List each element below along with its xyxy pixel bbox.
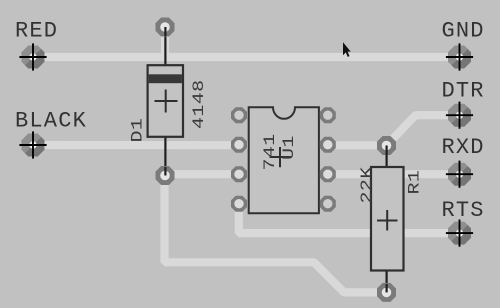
svg-text:GND: GND [442,18,485,43]
svg-text:4148: 4148 [191,79,208,129]
pad RXD [446,161,473,188]
svg-text:RTS: RTS [442,198,485,223]
wire: via V2 to via V4 trace [165,176,387,293]
pad GND [446,43,473,70]
resistor R1 [371,167,404,271]
via V2 (below diode) [156,166,175,185]
svg-text:741: 741 [262,133,279,170]
svg-text:BLACK: BLACK [15,108,87,133]
wire: BLACK to via V3 trace [33,141,387,150]
mouse cursor [343,42,351,57]
diode D1 [148,65,183,137]
via V3 (above resistor) [377,136,396,155]
pad DTR [446,102,473,129]
wire: RED to GND trace [33,53,460,61]
svg-text:RED: RED [15,18,58,43]
svg-text:DTR: DTR [442,78,485,103]
svg-text:22K: 22K [359,166,376,203]
pad U1 pin 7 [320,137,336,153]
pad U1 pin 1 [231,107,247,123]
via V4 (below resistor) [377,283,396,302]
pad RTS [446,220,473,247]
op-amp U1 [249,107,319,213]
pad U1 pin 8 [320,107,336,123]
pad U1 pin 6 [320,166,336,182]
svg-text:D1: D1 [129,118,146,143]
pad U1 pin 3 [231,166,247,182]
wire: via V3 to DTR trace [387,115,460,145]
wire: R1 lead over via V4 hole [386,284,388,292]
pad U1 pin 4 [231,196,247,212]
pad U1 pin 2 [231,137,247,153]
svg-text:U1: U1 [281,135,298,160]
pad BLACK [19,131,46,158]
via V1 (top, diode cathode) [156,18,175,37]
wire: U1 pin 4 to RTS trace [239,204,460,233]
wire: via V1 stub down to RED/GND trace [161,27,169,57]
wire: R1 bottom lead [386,269,388,292]
wire: U1 pin 6 to RXD trace [326,170,460,178]
wire: R1 top lead [386,146,388,169]
pad U1 pin 5 [320,196,336,212]
svg-text:RXD: RXD [442,135,485,160]
pad RED [19,43,46,70]
svg-text:R1: R1 [406,170,423,195]
wire: D1 top lead [164,27,166,66]
wire: D1 bottom lead [164,136,166,176]
wire: via V2 to U1 pin 3 trace [165,170,240,178]
wire: R1 lead over via V3 hole [386,146,388,156]
wire: D1 lead over via V2 hole [164,167,166,176]
wire: D1 lead over via V1 hole [164,27,166,36]
